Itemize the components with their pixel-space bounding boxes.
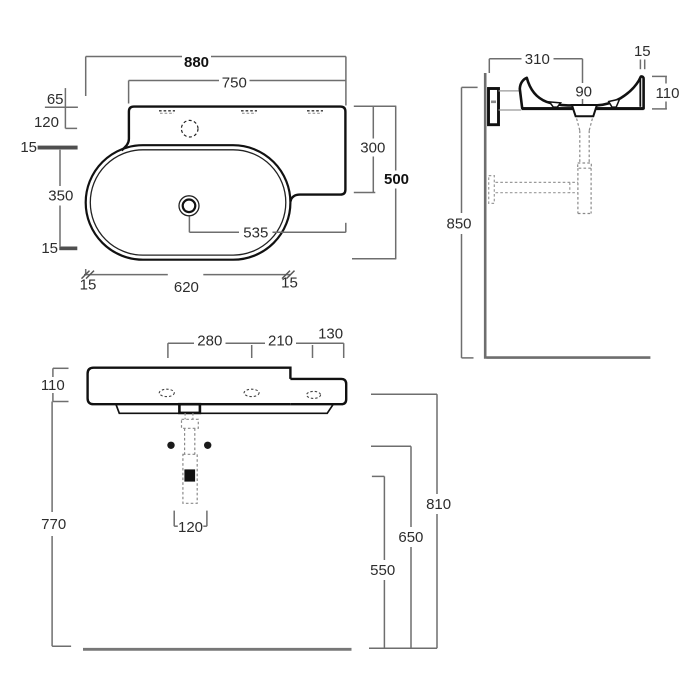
waste outlet square (184, 469, 195, 481)
basin bottom band (522, 107, 644, 110)
right notch (609, 99, 620, 107)
dim 535 line (189, 217, 345, 233)
svg-text:15: 15 (281, 275, 298, 292)
basin side profile silhouette (520, 76, 644, 108)
svg-text:850: 850 (446, 216, 471, 233)
dim 750 line (129, 81, 346, 104)
svg-text:350: 350 (48, 188, 73, 205)
front body outline (88, 368, 291, 405)
svg-text:110: 110 (656, 85, 680, 102)
left notch (550, 102, 561, 107)
tailpipe dashed (577, 119, 593, 214)
bracket slot mark (491, 101, 496, 104)
tap hole mark 2 on deck (241, 111, 257, 113)
front tap hole 3 (307, 391, 321, 398)
svg-text:90: 90 (575, 84, 592, 101)
svg-text:130: 130 (318, 326, 343, 343)
left chain dim 65/120 lines (45, 88, 78, 128)
svg-text:650: 650 (398, 529, 423, 546)
svg-text:550: 550 (370, 562, 395, 579)
bottom dim slashes (82, 271, 295, 279)
right dims shared top tick (354, 105, 397, 107)
wall line (484, 73, 487, 359)
drain flange front (179, 404, 200, 413)
svg-text:120: 120 (34, 114, 59, 131)
bolt right (204, 442, 211, 449)
drain recess (572, 105, 597, 116)
bolt left (167, 442, 174, 449)
svg-text:15: 15 (41, 240, 58, 257)
svg-text:535: 535 (243, 224, 268, 241)
inner rim edge line right (639, 79, 641, 107)
dim 500 line (352, 106, 396, 258)
wall bracket (489, 89, 499, 125)
bottom connector line (369, 647, 437, 649)
front wing outline (290, 379, 346, 404)
floor line front (83, 648, 352, 651)
floor line (487, 356, 651, 359)
bottom dim 15/620/15 line (84, 269, 291, 275)
dim 850 line (462, 87, 478, 358)
dim 880 line (86, 57, 346, 106)
svg-text:15: 15 (634, 43, 651, 60)
deck outline (122, 107, 346, 202)
svg-text:300: 300 (360, 140, 385, 157)
svg-text:770: 770 (41, 516, 66, 533)
apron under body (116, 404, 333, 413)
front tap hole 1 (159, 389, 174, 396)
dim 310 line (489, 59, 582, 104)
dim 300 line (354, 106, 376, 192)
dim 15 top-right ticks (640, 60, 644, 70)
svg-text:15: 15 (20, 139, 37, 156)
svg-text:880: 880 (184, 54, 209, 71)
svg-text:15: 15 (80, 277, 97, 294)
dim 15 lower-left ticks (59, 247, 77, 251)
tap hole mark 1 on deck (159, 111, 175, 113)
dim 110 bracket (front view) (53, 368, 69, 401)
dim 770 line (52, 402, 71, 647)
tap hole mark 3 on deck (307, 111, 323, 113)
svg-text:210: 210 (268, 332, 293, 349)
basin oval outer outline (86, 145, 291, 260)
svg-text:310: 310 (525, 51, 550, 68)
dim 810 line (371, 394, 437, 648)
wall drain pipe dashed (489, 176, 578, 204)
dim 15 upper-left ticks (38, 146, 78, 150)
svg-text:500: 500 (384, 171, 409, 188)
svg-text:110: 110 (41, 377, 65, 394)
dim 350 line (59, 150, 61, 247)
deck level lines to bracket (499, 91, 522, 110)
svg-text:810: 810 (426, 496, 451, 513)
dim 110 bracket (side view) (652, 76, 667, 109)
drain outer circle (179, 196, 199, 216)
top dims 280/210/130 line (168, 343, 344, 358)
svg-text:65: 65 (47, 91, 64, 108)
basin oval inner outline (90, 150, 285, 255)
drain pipe front dashed (182, 413, 199, 503)
dim 120 brackets (174, 511, 207, 527)
svg-text:280: 280 (197, 333, 222, 350)
svg-text:750: 750 (222, 75, 247, 92)
drain inner circle (183, 200, 196, 213)
dashed tap hole circle (181, 120, 198, 137)
dim 550 line (372, 476, 385, 648)
dim 650 line (371, 446, 411, 648)
svg-text:620: 620 (174, 279, 199, 296)
front tap hole 2 (244, 389, 259, 396)
svg-text:120: 120 (178, 519, 203, 536)
